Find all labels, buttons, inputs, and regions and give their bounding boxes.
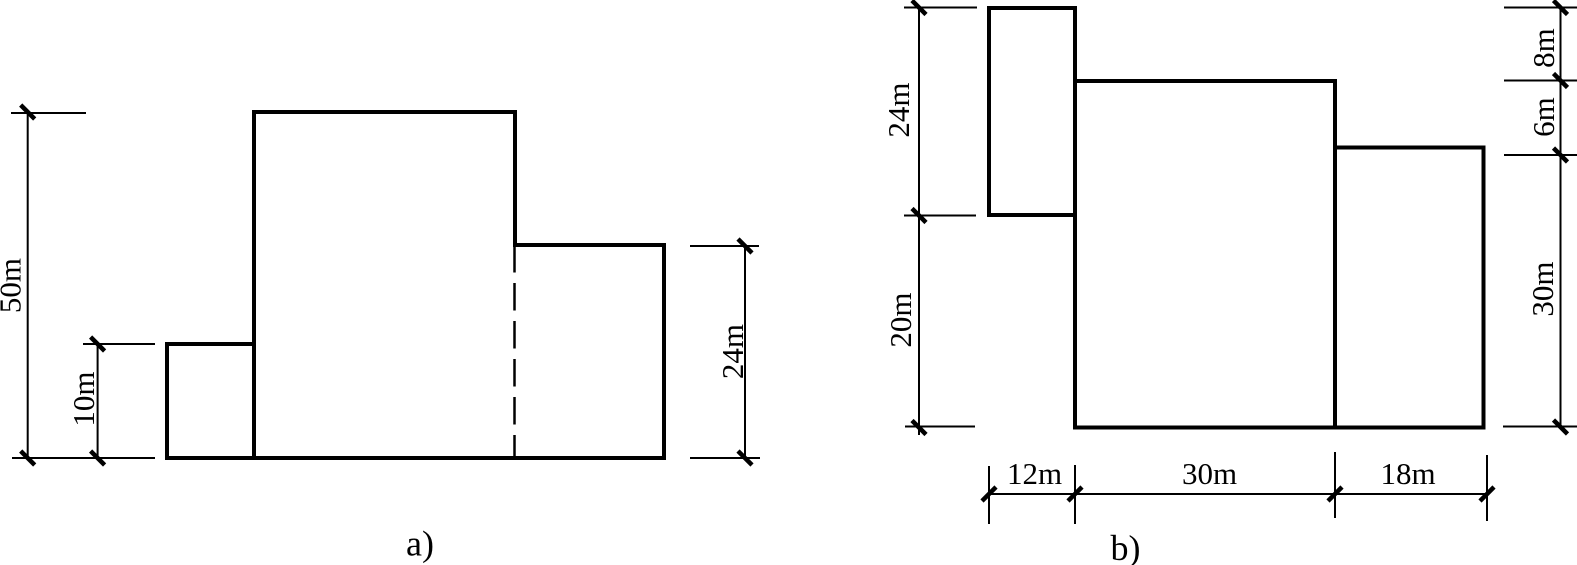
dimension line b bottom (12m+30m+18m) [989, 493, 1487, 495]
extension line b left bottom (20m bottom) [905, 426, 975, 428]
extension line b bottom 4 (18m right) [1486, 455, 1488, 521]
extension line a right-bottom (24m bottom) [690, 457, 760, 459]
svg-text:18m: 18m [1380, 456, 1435, 491]
tick 50m top [21, 105, 35, 119]
dimension line b right (8m+6m+30m) [1560, 6, 1562, 428]
building outline b: right wing [1335, 148, 1484, 428]
svg-text:30m: 30m [1182, 456, 1237, 491]
svg-text:8m: 8m [1526, 28, 1561, 68]
tick b left middle [912, 209, 926, 223]
extension line a bottom-left (50m/10m bottom) [12, 457, 155, 459]
dimension line 50m [27, 112, 29, 458]
svg-text:12m: 12m [1007, 456, 1062, 491]
svg-text:b): b) [1111, 528, 1141, 565]
extension line b right 4 (30m bottom) [1503, 426, 1577, 428]
svg-text:50m: 50m [0, 258, 28, 313]
extension line b bottom 2 (12m/30m) [1074, 465, 1076, 524]
building outline b: tower [989, 8, 1075, 215]
tick b bottom 2 [1068, 487, 1082, 501]
extension line b right 3 (6m/30m) [1504, 154, 1577, 156]
svg-text:a): a) [406, 524, 434, 564]
tick 10m top [91, 337, 105, 351]
partition wall a (dashed) [513, 245, 516, 458]
extension line b left top (24m top) [904, 7, 977, 9]
tick 24m bottom [738, 451, 752, 465]
tick b left top [912, 1, 926, 15]
dimension line 10m [97, 344, 99, 458]
extension line b bottom 1 (12m left) [988, 466, 990, 524]
tick b right 2 [1554, 74, 1568, 88]
tick b right 3 [1554, 148, 1568, 162]
tick 50m bottom [21, 451, 35, 465]
tick b bottom 4 [1480, 487, 1494, 501]
svg-text:30m: 30m [1525, 261, 1560, 316]
svg-text:24m: 24m [881, 82, 916, 137]
extension line a small-rect top (10m top) [83, 343, 155, 345]
svg-text:10m: 10m [66, 371, 101, 426]
tick 24m top [738, 239, 752, 253]
dimension line 24m [744, 246, 746, 458]
extension line b bottom 3 (30m/18m) [1334, 452, 1336, 518]
tick b left bottom [912, 421, 926, 435]
extension line b left middle (24m/20m) [904, 215, 976, 217]
tick 10m bottom [91, 451, 105, 465]
extension line b right 2 (8m/6m) [1504, 80, 1577, 82]
extension line a right-top (24m top) [690, 245, 759, 247]
svg-text:24m: 24m [715, 324, 750, 379]
building outline a [167, 112, 664, 458]
building outline b: main block [1075, 81, 1335, 428]
tick b bottom 3 [1328, 487, 1342, 501]
partition wall a (left) [252, 344, 256, 458]
tick b bottom 1 [982, 487, 996, 501]
svg-text:6m: 6m [1526, 97, 1561, 137]
svg-text:20m: 20m [883, 292, 918, 347]
extension line b right 1 (8m top) [1504, 7, 1577, 9]
dimension line b left (24m+20m) [918, 7, 920, 435]
tick b right 4 [1554, 420, 1568, 434]
extension line a top-left (50m top) [11, 112, 86, 114]
tick b right 1 [1554, 1, 1568, 15]
